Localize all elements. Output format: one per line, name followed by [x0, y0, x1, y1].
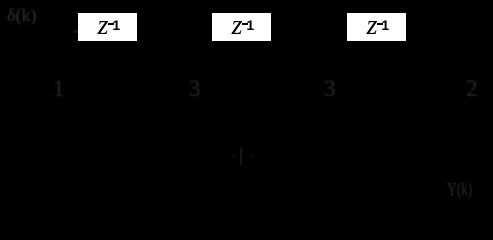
- coefficient 1: [53, 77, 65, 100]
- delay block Z3 z^-1: [347, 13, 406, 41]
- coefficient 3: [189, 77, 201, 100]
- coefficient 3: [324, 77, 336, 100]
- node output label Y(k): [447, 180, 472, 198]
- node input label delta(k): [7, 6, 36, 24]
- delay block Z2 z^-1: [212, 13, 271, 41]
- summing junction plus right tick: [250, 155, 253, 157]
- coefficient 2: [466, 77, 478, 100]
- summing junction plus left tick: [232, 155, 235, 157]
- arrowhead remnant into Z1: [73, 30, 78, 33]
- delay block Z1 z^-1: [78, 13, 137, 41]
- summing junction plus vertical: [240, 148, 242, 165]
